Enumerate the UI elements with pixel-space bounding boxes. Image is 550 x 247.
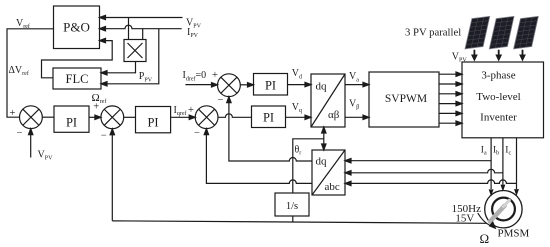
- svg-text:PMSM: PMSM: [498, 227, 530, 239]
- block PI1 (voltage PI): [54, 106, 89, 132]
- block 3-phase two-level inverter: [462, 62, 544, 138]
- summing junction S1: [20, 106, 43, 129]
- wire IPV drop to multiplier: [142, 29, 144, 40]
- wire S4 to PI3: [240, 83, 253, 87]
- block FLC: [53, 68, 101, 89]
- block 1/s integrator: [275, 193, 309, 216]
- motor shaft (gray bar): [490, 206, 505, 222]
- svg-text:Ω: Ω: [480, 231, 490, 246]
- block PI2 (speed PI): [136, 107, 171, 133]
- wire omega feedback line from motor: [112, 221, 486, 223]
- wire Valpha dq to SVPWM: [345, 82, 369, 86]
- svg-text:Inventer: Inventer: [480, 111, 517, 123]
- wire Vref from P&O to S1: [7, 29, 54, 117]
- svg-text:+: +: [93, 102, 99, 113]
- svg-text:PI: PI: [265, 78, 276, 92]
- wire current tap Ic to dq/abc with two hops: [345, 180, 517, 186]
- block dq-to-abc transform: [312, 150, 345, 195]
- block PI3 (d-axis current PI): [254, 74, 288, 96]
- wire Vd PI3 to dq box: [288, 82, 312, 86]
- svg-text:+: +: [10, 108, 16, 119]
- wire S2 to PI2: [124, 116, 136, 118]
- PMSM motor inner ring: [492, 198, 515, 221]
- wires SVPWM to inverter (6 gate lines): [439, 72, 462, 125]
- wire Idref arrow into S4: [185, 83, 217, 87]
- svg-text:−: −: [101, 131, 107, 142]
- wire id feedback from dq/abc to S4: [227, 97, 312, 161]
- wire thetar double arrow between transforms: [322, 127, 326, 150]
- PV panel 3: [514, 16, 539, 49]
- wire IPV line into P&O with hop: [100, 25, 182, 31]
- block PI4 (q-axis current PI): [252, 106, 286, 128]
- svg-text:abc: abc: [325, 181, 340, 193]
- svg-text:1/s: 1/s: [286, 201, 298, 212]
- wire current tap Ia to dq/abc: [345, 159, 491, 163]
- svg-text:PI: PI: [263, 111, 274, 125]
- block dq-to-alphabeta transform: [311, 74, 345, 127]
- svg-text:αβ: αβ: [328, 109, 340, 121]
- wire phase b from inverter to motor: [501, 138, 504, 190]
- wire VPV arrow into S1 bottom: [29, 129, 33, 158]
- svg-text:+: +: [188, 105, 194, 116]
- svg-text:P&O: P&O: [63, 20, 90, 35]
- wire 1/s input from omega line: [292, 216, 294, 222]
- wire phase c from inverter to motor: [515, 138, 518, 195]
- summing junction S4: [218, 74, 241, 97]
- PV panel 1: [465, 16, 490, 49]
- svg-text:PI: PI: [147, 116, 158, 130]
- svg-text:PI: PI: [66, 115, 77, 129]
- block SVPWM: [369, 72, 439, 127]
- PMSM motor outer circle: [485, 191, 522, 228]
- summing junction S3: [195, 106, 218, 129]
- wire VPV top line into P&O: [100, 15, 183, 19]
- svg-text:Two-level: Two-level: [476, 91, 520, 103]
- wire PI2 to S3: [171, 115, 196, 119]
- svg-text:−: −: [194, 128, 200, 139]
- wire S3 to PI4 with hop: [218, 114, 252, 117]
- PV array arrows (bold): [474, 50, 522, 56]
- svg-text:−: −: [218, 95, 224, 106]
- summing junction S2: [101, 106, 124, 129]
- multiplier X-box: [124, 40, 146, 62]
- svg-text:SVPWM: SVPWM: [385, 93, 427, 105]
- svg-text:3 PV parallel: 3 PV parallel: [405, 26, 461, 38]
- wire FLC output loop to P&O: [42, 38, 113, 77]
- wire multiplier output to FLC: [101, 62, 136, 76]
- svg-text:−: −: [17, 128, 23, 139]
- block P&O: [54, 6, 100, 49]
- PV panel 2: [489, 16, 514, 49]
- wire PI1 to S2: [89, 115, 101, 119]
- svg-text:15V: 15V: [455, 213, 474, 225]
- svg-text:dq: dq: [316, 156, 328, 168]
- wire iq feedback from dq/abc to S3: [204, 129, 312, 184]
- svg-text:FLC: FLC: [66, 72, 89, 86]
- wire current tap Ib to dq/abc with hop: [345, 169, 503, 175]
- svg-text:dq: dq: [316, 81, 328, 93]
- wire S1 to PI1: [42, 116, 54, 118]
- svg-text:3-phase: 3-phase: [481, 70, 515, 82]
- rotation arrow at motor: [478, 213, 496, 228]
- wire VPV drop to multiplier: [128, 18, 130, 40]
- wire phase a from inverter to motor: [490, 138, 493, 195]
- wire thetar from 1/s up: [293, 139, 324, 193]
- wire PPV into FLC: [101, 29, 159, 86]
- svg-text:+: +: [212, 70, 218, 81]
- wire speed feedback into S2 bottom: [110, 129, 114, 221]
- wire Vbeta dq to SVPWM: [345, 115, 369, 119]
- wire Vq PI4 to dq box: [286, 115, 312, 119]
